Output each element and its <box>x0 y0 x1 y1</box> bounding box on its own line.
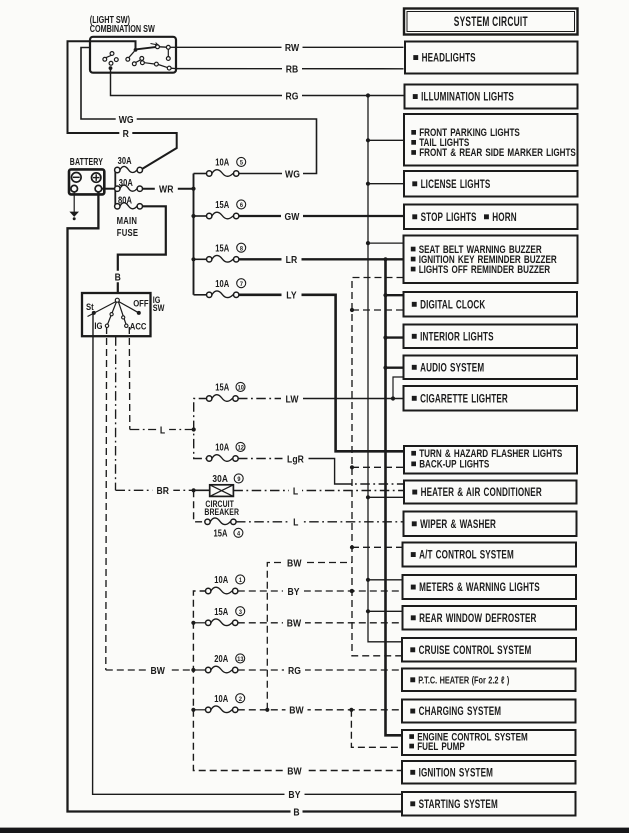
bus B feed digital clock <box>350 308 354 312</box>
svg-text:80A: 80A <box>118 195 132 206</box>
svg-text:B: B <box>115 272 121 284</box>
box HEADLIGHTS <box>405 42 578 74</box>
wire WR (main fuse to fuse block) <box>142 188 193 190</box>
label RW <box>282 42 303 54</box>
svg-text:GW: GW <box>285 211 301 223</box>
box WIPER & WASHER <box>404 512 577 537</box>
svg-text:8: 8 <box>240 245 244 253</box>
svg-text:RG: RG <box>288 665 301 677</box>
svg-text:10A: 10A <box>214 574 228 585</box>
svg-text:BACK-UP LIGHTS: BACK-UP LIGHTS <box>419 457 489 469</box>
svg-text:IGNITION SYSTEM: IGNITION SYSTEM <box>419 767 493 780</box>
label RG <box>282 90 302 102</box>
svg-text:20A: 20A <box>214 653 228 664</box>
fuse F12 10A <box>207 456 212 461</box>
wire battery to main fuse <box>102 188 116 190</box>
svg-text:BR: BR <box>157 485 170 497</box>
svg-text:12: 12 <box>238 444 245 452</box>
box IGNITION SYSTEM <box>402 761 576 784</box>
svg-text:L: L <box>293 517 298 529</box>
box METERS & WARNING LIGHTS <box>403 575 577 599</box>
bus D feed interior lights <box>383 336 387 340</box>
svg-text:MAIN: MAIN <box>117 215 138 226</box>
svg-text:3: 3 <box>239 608 243 616</box>
bus B feed back-up lights <box>350 465 354 469</box>
battery positive terminal <box>92 173 101 182</box>
svg-text:30A: 30A <box>118 155 132 166</box>
svg-text:5: 5 <box>240 159 244 167</box>
box LICENSE LIGHTS <box>404 171 578 197</box>
label WG fuse5 <box>282 168 303 180</box>
battery BT1 box <box>69 169 104 194</box>
svg-text:BW: BW <box>287 766 302 778</box>
label BY bottom <box>285 789 305 801</box>
junction BW / riser <box>265 708 269 712</box>
wire BW (fuse 2 to charging system) <box>238 709 402 711</box>
svg-text:IG: IG <box>94 320 102 331</box>
svg-text:BW: BW <box>287 558 302 570</box>
wire LY (fuse 7 down to turn and hazard) <box>239 295 404 452</box>
svg-text:RG: RG <box>285 91 298 103</box>
box ENGINE CONTROL SYSTEM <box>402 730 576 755</box>
ignition switch rotor <box>115 298 119 302</box>
box REAR WINDOW DEFROSTER <box>403 606 577 630</box>
svg-text:15A: 15A <box>214 606 228 617</box>
svg-text:CHARGING SYSTEM: CHARGING SYSTEM <box>419 706 502 719</box>
bus B junction BY <box>350 589 354 593</box>
wire RB (light switch to headlights) <box>176 68 404 70</box>
svg-text:L: L <box>293 486 298 498</box>
fuse F8 15A <box>207 257 212 262</box>
svg-text:SYSTEM CIRCUIT: SYSTEM CIRCUIT <box>454 15 528 29</box>
fuse bus WR (rows 5-7) <box>193 174 195 295</box>
svg-text:LR: LR <box>286 254 298 266</box>
junction LW / audio stub <box>391 396 395 400</box>
svg-text:FUEL PUMP: FUEL PUMP <box>417 740 465 752</box>
svg-text:METERS & WARNING LIGHTS: METERS & WARNING LIGHTS <box>419 582 540 595</box>
svg-text:15A: 15A <box>213 527 227 538</box>
main fuse 30A upper <box>115 167 120 172</box>
junction BY / bus B <box>350 589 354 593</box>
label BY f1 <box>283 585 304 597</box>
svg-text:BATTERY: BATTERY <box>70 156 103 168</box>
wire RG (fuse 13 to PTC heater) <box>238 669 402 671</box>
ignition switch IG SW box <box>82 293 151 336</box>
bus B dashed (accessory bus) <box>352 278 404 656</box>
svg-text:LW: LW <box>285 394 299 406</box>
fuse bus ACC rows 10-12 <box>194 399 209 459</box>
label WG left <box>116 113 137 125</box>
fuse F13 20A <box>206 667 211 672</box>
svg-text:7: 7 <box>240 280 244 288</box>
fuse bus BW rows 1-2 to ignition system <box>193 591 402 771</box>
label WR <box>155 183 178 195</box>
box ILLUMINATION LIGHTS <box>405 85 578 109</box>
scan edge band <box>0 828 629 833</box>
svg-text:RW: RW <box>285 42 300 54</box>
svg-text:WR: WR <box>159 184 174 196</box>
title box SYSTEM CIRCUIT <box>404 9 578 35</box>
svg-text:FRONT & REAR SIDE MARKER LIGHT: FRONT & REAR SIDE MARKER LIGHTS <box>419 146 576 158</box>
svg-text:P.T.C. HEATER (For 2.2 ℓ ): P.T.C. HEATER (For 2.2 ℓ ) <box>418 674 509 685</box>
svg-text:L: L <box>160 425 165 437</box>
wire ACC dashed (ACC to fuse block L) <box>128 327 131 430</box>
box STARTING SYSTEM <box>402 792 576 816</box>
wire fuel pump stub <box>351 710 402 748</box>
label LR <box>282 254 302 265</box>
box A/T CONTROL SYSTEM <box>403 543 577 567</box>
bus B feed A/T control <box>350 545 354 549</box>
label BW f3 <box>283 617 305 629</box>
svg-text:DIGITAL CLOCK: DIGITAL CLOCK <box>420 299 486 312</box>
box FRONT PARKING LIGHTS <box>404 114 578 166</box>
svg-text:SW: SW <box>153 304 165 314</box>
wire R (30A fuse to light switch) <box>68 41 177 169</box>
box STOP LIGHTS <box>404 205 578 230</box>
fuse F1 10A <box>206 588 211 593</box>
svg-text:BY: BY <box>287 586 300 598</box>
junction bus row2 <box>191 708 195 712</box>
label L acc <box>156 424 169 436</box>
bus D thick (LR) <box>386 259 403 735</box>
wire L (breaker to heater) <box>233 490 404 492</box>
svg-text:10A: 10A <box>215 156 229 167</box>
svg-text:2: 2 <box>239 695 243 703</box>
svg-text:WIPER & WASHER: WIPER & WASHER <box>420 519 496 532</box>
junction bus row8 <box>191 257 195 261</box>
label BW f2 <box>286 704 308 716</box>
junction BW / fuel stub <box>349 708 353 712</box>
combination switch internals <box>134 48 138 52</box>
label B bottom <box>291 806 303 818</box>
wire B (80A fuse to ignition switch) <box>118 206 166 297</box>
wire BY (fuse 1 to meters) <box>238 590 403 592</box>
battery posts <box>71 185 78 192</box>
wire to circuit breaker BR <box>115 336 117 490</box>
box INTERIOR LIGHTS <box>404 325 578 349</box>
main fuse bus <box>114 170 116 206</box>
junction bus rowBW <box>191 668 195 672</box>
svg-text:B: B <box>293 807 299 819</box>
svg-text:9: 9 <box>237 476 241 484</box>
svg-text:St: St <box>86 301 94 312</box>
label RB <box>282 63 302 75</box>
label BW ign <box>147 664 169 676</box>
wire BY starter (St to starting system) <box>93 314 402 794</box>
junction WR / fuse bus <box>191 187 195 191</box>
svg-text:R: R <box>123 128 129 140</box>
main fuse 30A middle <box>115 186 120 191</box>
wire BW riser (fuse 2 up to A/T) <box>267 563 352 710</box>
svg-text:CRUISE CONTROL SYSTEM: CRUISE CONTROL SYSTEM <box>419 645 532 658</box>
bus D feed audio <box>383 366 387 370</box>
bus C illumination (RG) <box>368 96 402 642</box>
bus C feed seat belt row <box>366 241 370 245</box>
svg-text:10: 10 <box>238 384 245 392</box>
bus C feed license lights <box>366 182 370 186</box>
wire L (fuse 4 to wiper and washer) <box>236 521 404 523</box>
svg-text:FUSE: FUSE <box>117 227 138 238</box>
wire BW (fuse 3 to rear window defroster) <box>238 622 403 624</box>
svg-text:HORN: HORN <box>492 212 516 225</box>
wire RG (light switch to illumination lights) <box>111 68 404 95</box>
wire LR (fuse 8 to seat belt warning) <box>239 258 404 260</box>
label GW <box>281 210 303 222</box>
label RG f13 <box>284 664 305 676</box>
wire B battery feed (battery to starting system) <box>68 192 403 812</box>
svg-text:10A: 10A <box>214 693 228 704</box>
circuit breaker box <box>210 485 234 497</box>
box TURN & HAZARD <box>404 446 577 474</box>
box CHARGING SYSTEM <box>402 700 576 723</box>
label L breaker <box>289 485 302 497</box>
combination switch SW1 box <box>90 37 176 73</box>
svg-text:HEATER & AIR CONDITIONER: HEATER & AIR CONDITIONER <box>421 487 543 500</box>
fuse F4 15A <box>205 519 210 524</box>
svg-text:LY: LY <box>286 290 297 302</box>
label LW <box>281 393 303 405</box>
svg-text:WG: WG <box>119 114 134 126</box>
box P.T.C. HEATER <box>402 669 576 692</box>
bus D feed digital clock <box>383 293 387 297</box>
svg-text:RB: RB <box>286 64 299 76</box>
box SEAT BELT <box>404 236 578 284</box>
svg-text:30A: 30A <box>212 473 228 484</box>
fuse F10 15A <box>207 396 212 401</box>
label LY <box>282 289 302 301</box>
svg-text:15A: 15A <box>215 242 229 253</box>
junction bus row3 <box>191 621 195 625</box>
svg-text:6: 6 <box>240 202 244 210</box>
ground symbol below battery <box>73 192 75 212</box>
svg-text:10A: 10A <box>215 441 229 452</box>
wire IG dashed (IG to fuse block BW) <box>105 327 108 670</box>
svg-text:BW: BW <box>289 705 304 717</box>
svg-text:4: 4 <box>237 530 241 538</box>
label B ign <box>112 271 124 283</box>
svg-text:WG: WG <box>285 169 300 181</box>
svg-text:COMBINATION SW: COMBINATION SW <box>90 23 156 34</box>
svg-text:BW: BW <box>287 618 302 630</box>
svg-text:LgR: LgR <box>287 454 304 466</box>
svg-text:INTERIOR LIGHTS: INTERIOR LIGHTS <box>420 331 494 344</box>
svg-text:CIGARETTE LIGHTER: CIGARETTE LIGHTER <box>420 393 508 406</box>
fuse F6 15A <box>207 213 212 218</box>
svg-text:STARTING SYSTEM: STARTING SYSTEM <box>419 799 498 812</box>
svg-text:STOP LIGHTS: STOP LIGHTS <box>421 212 477 225</box>
junction BR / breaker <box>192 488 196 492</box>
svg-text:HEADLIGHTS: HEADLIGHTS <box>422 52 476 65</box>
svg-text:ILLUMINATION LIGHTS: ILLUMINATION LIGHTS <box>421 91 514 104</box>
fuse F5 10A <box>207 171 212 176</box>
wire LW (fuse 10 to cigarette lighter) <box>238 398 284 400</box>
svg-text:BW: BW <box>150 665 165 677</box>
label BR <box>152 485 173 497</box>
box CRUISE CONTROL SYSTEM <box>402 638 576 662</box>
label LgR <box>283 453 309 465</box>
junction bus row6 <box>191 214 195 218</box>
svg-text:BY: BY <box>288 789 301 801</box>
wire audio stub (cigarette to audio) <box>393 377 404 399</box>
label BW riser <box>283 557 305 569</box>
bus C feed heater <box>366 495 370 499</box>
label R <box>119 127 132 139</box>
svg-text:1: 1 <box>239 577 243 585</box>
box CIGARETTE LIGHTER <box>404 386 578 411</box>
svg-text:15A: 15A <box>215 199 229 210</box>
box HEATER & AIR CONDITIONER <box>404 481 577 504</box>
svg-text:13: 13 <box>237 656 244 664</box>
svg-text:A/T CONTROL SYSTEM: A/T CONTROL SYSTEM <box>419 549 514 562</box>
box AUDIO SYSTEM <box>404 356 578 380</box>
wire LgR (fuse 12 to heater) <box>238 458 285 460</box>
svg-text:BREAKER: BREAKER <box>204 506 239 517</box>
wire WG (fuse 5 to light switch) <box>81 48 317 174</box>
svg-text:10A: 10A <box>215 278 229 289</box>
fuse F7 10A <box>207 292 212 297</box>
svg-text:15A: 15A <box>215 381 229 392</box>
svg-text:AUDIO SYSTEM: AUDIO SYSTEM <box>420 362 484 375</box>
bus C feed tail lights <box>366 138 370 142</box>
box DIGITAL CLOCK <box>404 292 578 317</box>
svg-text:ACC: ACC <box>130 321 147 332</box>
bus C feed meters <box>366 578 370 582</box>
wire RW (light switch to headlights) <box>176 46 404 48</box>
battery negative terminal <box>72 173 82 183</box>
fuse F3 15A <box>206 620 211 625</box>
label BW bottom <box>284 765 306 777</box>
svg-text:OFF: OFF <box>133 298 148 309</box>
bus C feed defroster <box>366 609 370 613</box>
junction LR / bus D <box>383 257 387 261</box>
main fuse 80A <box>115 204 120 209</box>
label L f4 <box>289 516 302 528</box>
wire GW (fuse 6 to stop lights) <box>239 215 404 217</box>
junction bus L acc <box>192 427 196 431</box>
svg-text:LICENSE LIGHTS: LICENSE LIGHTS <box>421 179 491 192</box>
svg-text:LIGHTS OFF REMINDER BUZZER: LIGHTS OFF REMINDER BUZZER <box>419 263 551 275</box>
fuse F2 10A <box>206 707 211 712</box>
svg-text:REAR WINDOW DEFROSTER: REAR WINDOW DEFROSTER <box>419 613 537 626</box>
junction RG / illumination bus <box>366 93 370 97</box>
fuse bus breaker to fuse 4 <box>194 490 205 522</box>
